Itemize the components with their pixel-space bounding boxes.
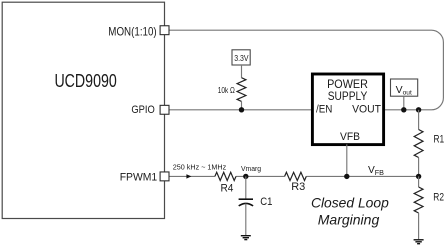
svg-text:/EN: /EN: [316, 104, 332, 116]
pin MON(1:10) square: [160, 26, 169, 35]
wire Vout box lead: [403, 96, 405, 110]
junction VFB node: [344, 174, 349, 179]
wire R4 to Vmarg to R3: [236, 175, 285, 177]
IC UCD9090: [2, 2, 164, 218]
wire MON(1:10) loop to VOUT node: [169, 30, 443, 110]
svg-text:MON(1:10): MON(1:10): [108, 25, 157, 38]
svg-text:VFB: VFB: [340, 131, 360, 143]
pin GPIO square: [160, 105, 169, 114]
svg-text:3.3V: 3.3V: [234, 54, 249, 63]
wire 3.3V lead: [241, 65, 243, 78]
node Vmarg: [243, 174, 248, 179]
capacitor C1: [245, 176, 247, 199]
resistor R2: [418, 176, 420, 187]
svg-text:GPIO: GPIO: [131, 104, 155, 116]
svg-text:R1: R1: [434, 134, 445, 146]
svg-text:Vmarg: Vmarg: [241, 164, 261, 173]
svg-text:FPWM1: FPWM1: [120, 171, 158, 183]
wire GPIO to /EN: [169, 109, 312, 111]
svg-text:C1: C1: [260, 196, 272, 208]
svg-text:250 kHz ~ 1MHz: 250 kHz ~ 1MHz: [173, 163, 227, 172]
junction R1/R2: [416, 174, 421, 179]
svg-text:R2: R2: [433, 192, 444, 204]
svg-text:VOUT: VOUT: [352, 104, 381, 116]
probe box Vout: [391, 79, 418, 96]
svg-text:UCD9090: UCD9090: [54, 71, 116, 91]
svg-text:SUPPLY: SUPPLY: [328, 89, 368, 103]
svg-text:10k Ω: 10k Ω: [218, 86, 235, 95]
resistor R4: [215, 172, 236, 180]
pin FPWM1 square: [160, 172, 169, 181]
svg-text:R4: R4: [220, 183, 233, 195]
wire R3 to VFB node to R1/R2: [306, 175, 418, 177]
ground (R2): [414, 240, 424, 244]
resistor R3: [285, 172, 307, 180]
ground (C1): [241, 236, 251, 240]
junction R1 top: [416, 107, 421, 112]
supply box 3.3V: [232, 50, 250, 65]
junction GPIO/10k: [239, 107, 244, 112]
svg-text:R3: R3: [291, 181, 305, 193]
resistor R1: [418, 110, 420, 130]
wire FPWM1 to R4: [169, 175, 215, 177]
wire VFB lead: [346, 144, 348, 176]
resistor 10k ohm: [237, 78, 246, 102]
arrow on FPWM1 wire: [186, 174, 191, 178]
junction Vout lead: [401, 107, 406, 112]
svg-text:Margining: Margining: [318, 211, 380, 227]
svg-text:Closed Loop: Closed Loop: [311, 194, 389, 210]
power supply block: [312, 74, 383, 145]
